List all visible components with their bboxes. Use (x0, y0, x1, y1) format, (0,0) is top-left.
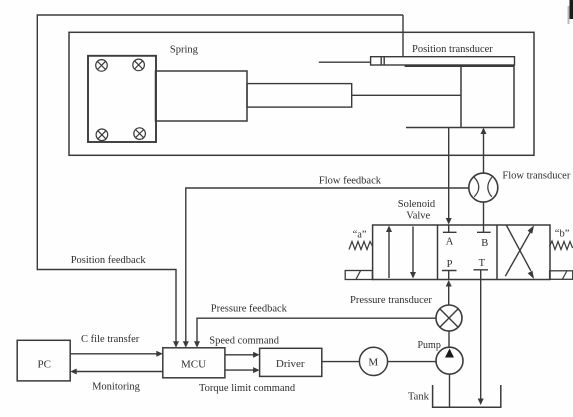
pressure transducer (436, 305, 462, 331)
screw top-right (133, 59, 145, 71)
solenoid a box (345, 271, 372, 280)
test rig enclosure (69, 32, 534, 155)
wire torque limit command (225, 369, 254, 371)
MCU box (163, 348, 225, 378)
svg-text:Flow feedback: Flow feedback (319, 176, 382, 187)
screw top-left (96, 60, 108, 72)
valve port B (477, 225, 491, 232)
svg-text:Flow transducer: Flow transducer (502, 171, 570, 182)
wire pump to tank (449, 374, 451, 407)
PC box (17, 340, 70, 381)
wire transducer to pump (448, 331, 450, 347)
arrow into valve P (446, 280, 452, 287)
transducer slider box (381, 57, 384, 65)
valve left section down arrow (412, 227, 414, 274)
svg-text:Solenoid: Solenoid (398, 199, 436, 210)
wire speed command (225, 354, 254, 356)
valve right section cross arrow 2 (506, 225, 531, 271)
valve port T (473, 270, 488, 280)
valve right section cross arrow 1 (505, 232, 530, 277)
svg-text:A: A (446, 237, 454, 248)
spring a (349, 242, 373, 250)
valve divider left (437, 225, 439, 280)
wire rod to piston (352, 94, 461, 96)
arrow into valve A (446, 218, 452, 225)
svg-text:Tank: Tank (408, 392, 430, 403)
solenoid valve body (373, 225, 550, 280)
svg-text:Pump: Pump (418, 340, 441, 351)
flow transducer U3 (469, 173, 498, 202)
wire pump to valve P (448, 286, 450, 305)
wire valve T to tank (480, 280, 482, 400)
svg-text:Torque limit command: Torque limit command (199, 383, 296, 394)
position transducer bar (371, 57, 515, 65)
arrow pressure feedback into MCU (194, 341, 200, 348)
arrow into cylinder (481, 128, 487, 135)
scan artifact top right (570, 0, 573, 19)
wire monitoring (76, 371, 163, 373)
valve divider right (496, 225, 498, 280)
valve port A (443, 225, 457, 232)
svg-text:PC: PC (38, 358, 51, 370)
svg-text:“b”: “b” (555, 229, 570, 240)
svg-text:Pressure transducer: Pressure transducer (350, 295, 432, 306)
svg-text:Position feedback: Position feedback (71, 255, 147, 266)
wire position feedback loop (37, 15, 403, 343)
svg-text:Monitoring: Monitoring (92, 382, 141, 393)
wire transducer to top (402, 15, 404, 57)
svg-text:MCU: MCU (181, 358, 206, 370)
valve port P (442, 271, 457, 280)
svg-text:“a”: “a” (353, 230, 367, 241)
screw bottom-right (134, 128, 146, 140)
wire driver to motor (322, 361, 360, 363)
wire cylinder to valve port A (448, 128, 450, 219)
Driver box (260, 348, 322, 376)
arrow flow feedback into MCU (183, 341, 189, 348)
svg-text:Driver: Driver (276, 358, 305, 370)
svg-text:Pressure feedback: Pressure feedback (211, 303, 288, 314)
tank (433, 385, 501, 407)
svg-text:M: M (368, 356, 378, 368)
plate with screws (88, 56, 156, 142)
piston rod block (247, 84, 352, 108)
svg-text:Valve: Valve (406, 210, 430, 221)
wire C file transfer (70, 353, 157, 355)
solenoid b box (550, 271, 573, 280)
wire flow feedback (186, 188, 469, 343)
screw bottom-left (96, 129, 108, 141)
arrow into tank (478, 399, 484, 406)
wire valve port B through flow transducer to cylinder (483, 133, 485, 225)
pump P1 (436, 347, 463, 374)
svg-text:P: P (447, 259, 453, 270)
spring housing (156, 71, 248, 121)
svg-text:T: T (479, 258, 486, 269)
svg-text:Speed command: Speed command (209, 336, 279, 347)
wire pressure feedback (197, 318, 436, 343)
svg-text:C file transfer: C file transfer (81, 334, 140, 345)
wire transducer stem (319, 61, 371, 63)
node arrow into MCU (position feedback) (173, 341, 179, 348)
motor M (359, 347, 387, 375)
svg-text:B: B (481, 238, 488, 249)
wire motor to pump (388, 361, 436, 363)
svg-text:Spring: Spring (170, 45, 199, 56)
piston (460, 66, 462, 127)
svg-text:Position transducer: Position transducer (412, 44, 493, 55)
spring b (549, 241, 572, 250)
valve left section up arrow (388, 231, 390, 278)
cylinder body (405, 66, 514, 127)
